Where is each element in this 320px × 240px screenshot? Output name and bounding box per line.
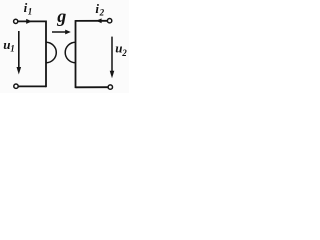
voltage arrow u1 bbox=[18, 31, 20, 69]
wire left vertical (gyrator left side) bbox=[45, 21, 47, 88]
wire top-left bbox=[18, 20, 46, 22]
gyrator left arc bbox=[46, 42, 56, 63]
wire bottom-right bbox=[76, 86, 109, 88]
terminal T3 (top-right port terminal) bbox=[107, 19, 111, 23]
gyration arrow g bbox=[52, 31, 67, 33]
svg-text:1: 1 bbox=[10, 44, 15, 54]
gyrator right arc bbox=[65, 42, 75, 63]
current arrow i2 head (pointing left) bbox=[96, 18, 102, 23]
svg-text:2: 2 bbox=[121, 48, 127, 58]
terminal T4 (bottom-right port terminal) bbox=[108, 85, 112, 89]
wire right vertical (gyrator right side) bbox=[75, 20, 77, 88]
svg-text:1: 1 bbox=[28, 7, 33, 17]
terminal T2 (bottom-left port terminal) bbox=[14, 84, 18, 88]
svg-text:g: g bbox=[56, 6, 66, 26]
terminal T1 (top-left port terminal) bbox=[14, 19, 18, 23]
voltage arrow u2 bbox=[111, 37, 113, 72]
svg-text:2: 2 bbox=[99, 8, 105, 18]
current arrow i1 head bbox=[26, 19, 32, 24]
wire bottom-left bbox=[19, 85, 47, 87]
wire top-right bbox=[76, 20, 108, 22]
